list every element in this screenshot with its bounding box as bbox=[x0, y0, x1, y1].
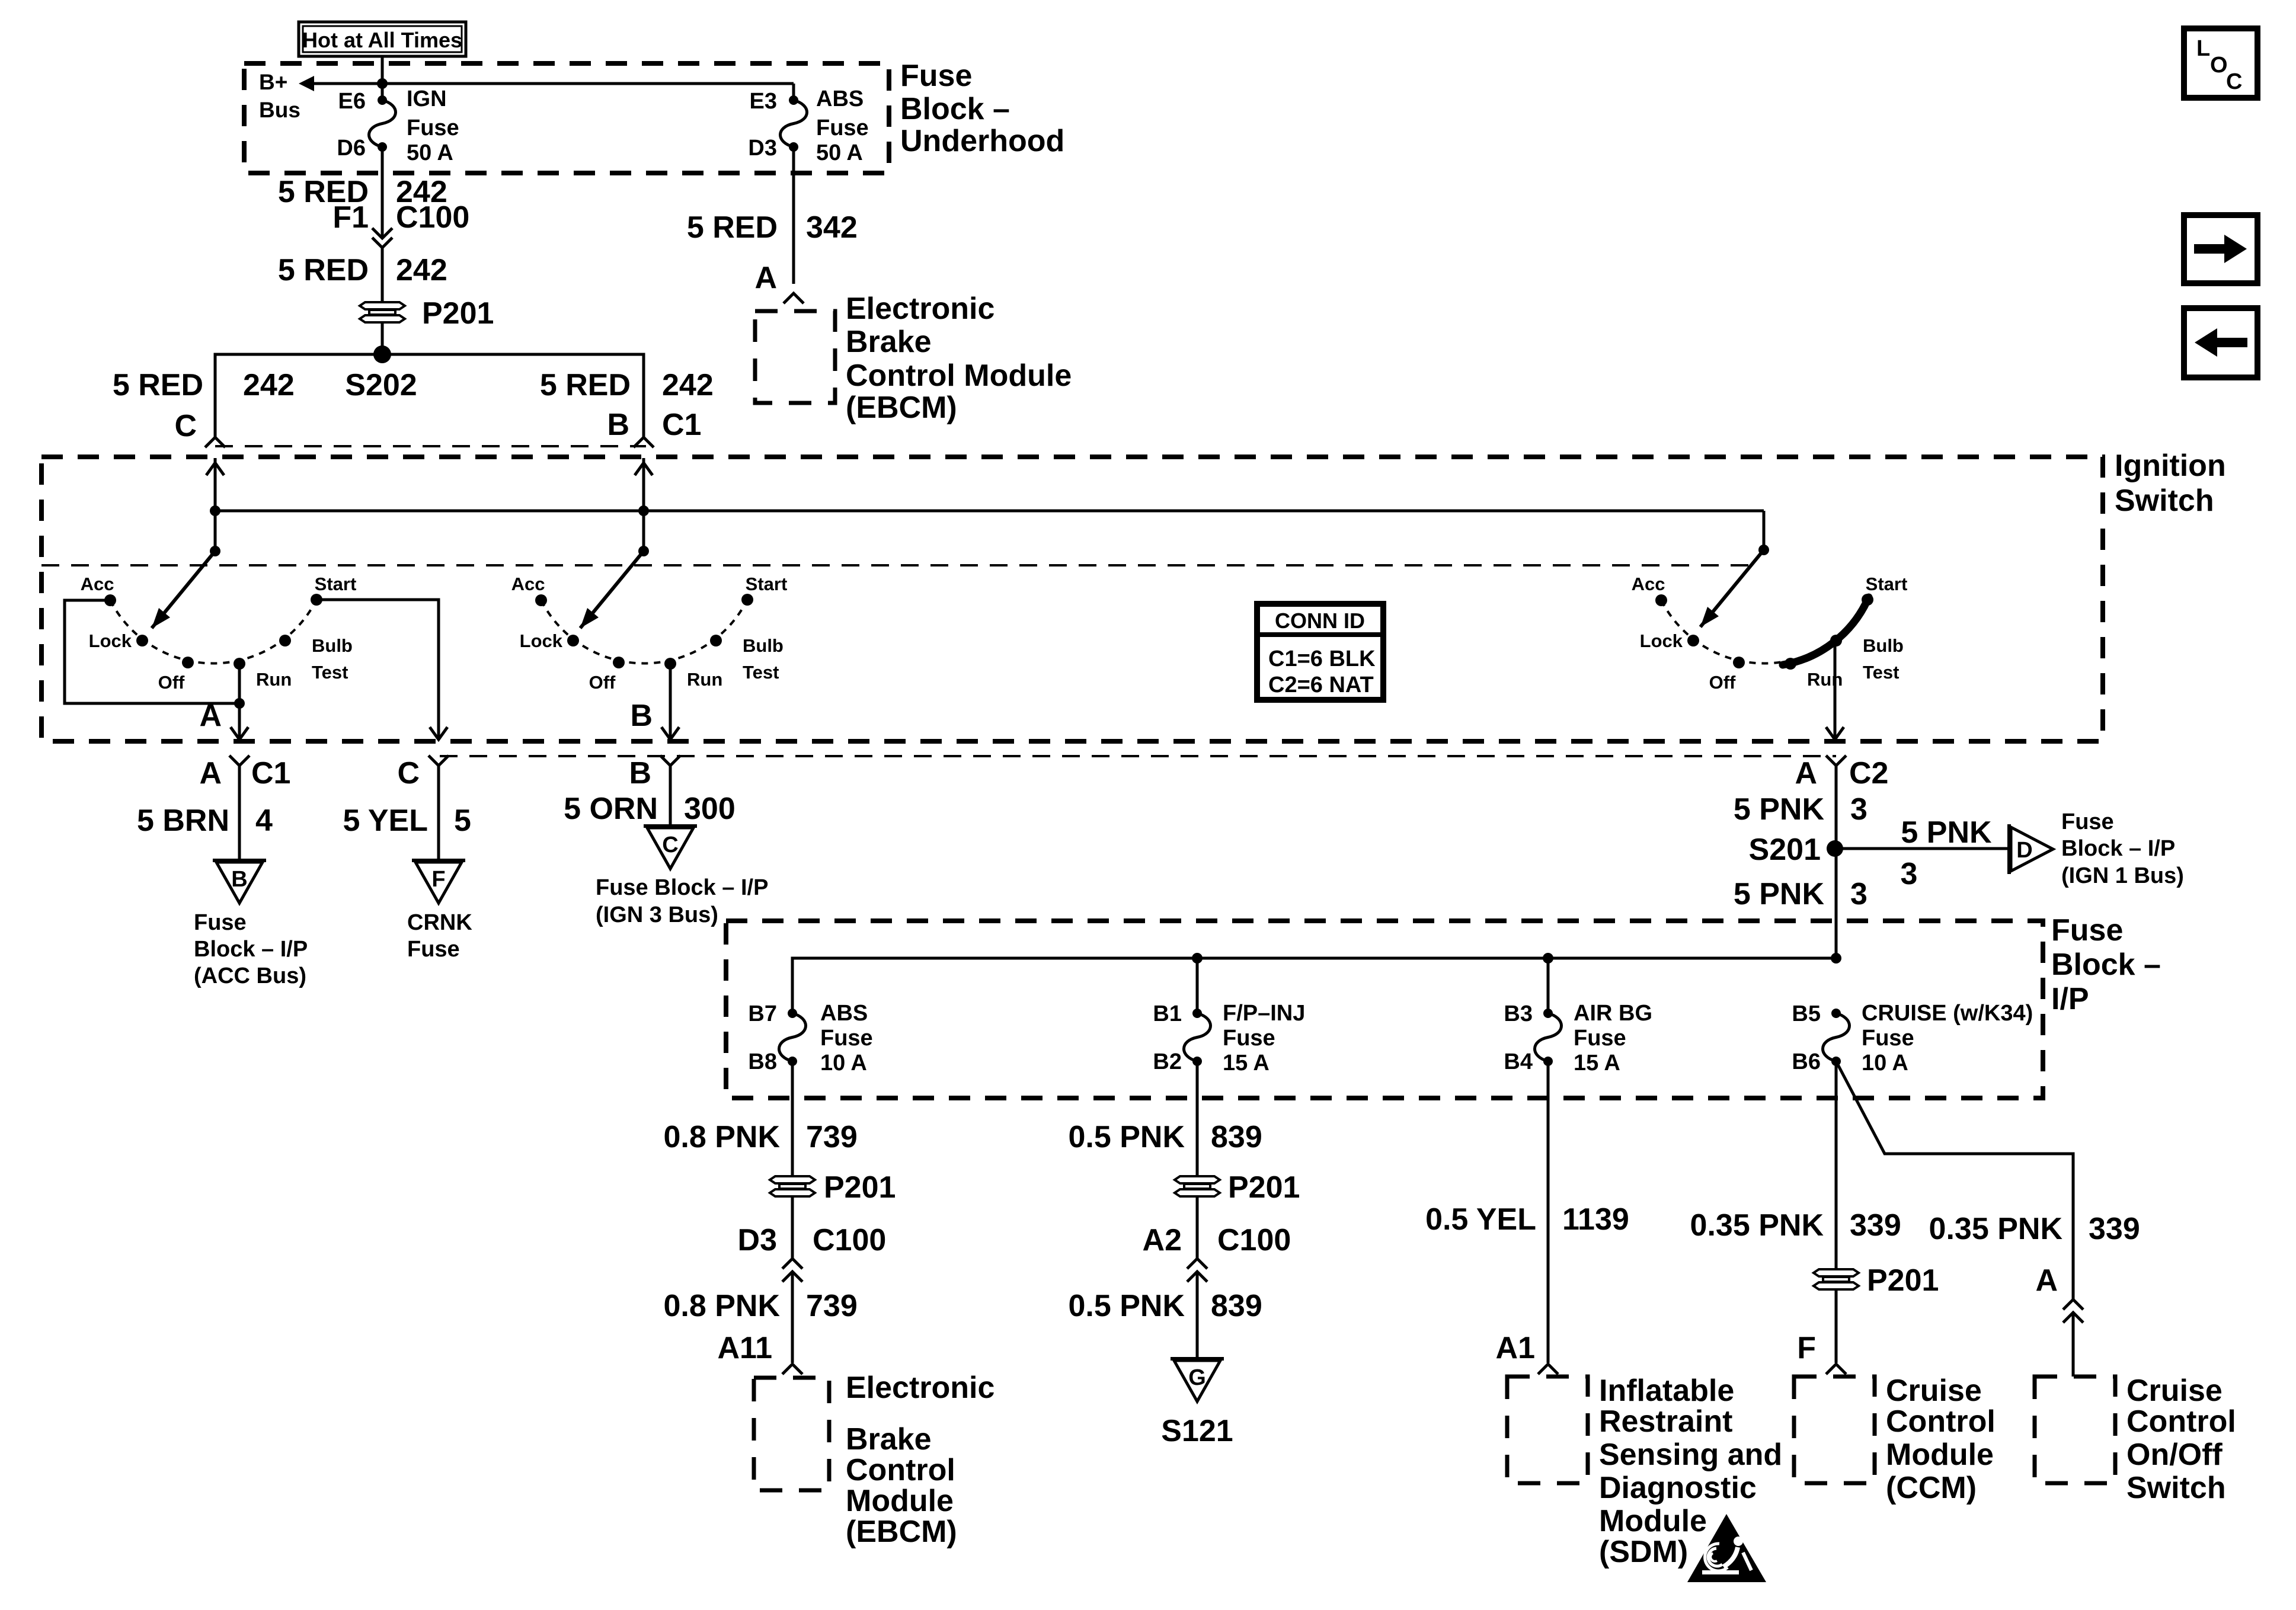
pin labels B5 B6 bbox=[1792, 1001, 1821, 1074]
value label IGN Fuse 50 A bbox=[407, 87, 459, 165]
svg-text:Fuse: Fuse bbox=[900, 59, 972, 93]
wire 339 from B6 bbox=[1835, 1061, 1838, 1269]
svg-text:Control: Control bbox=[846, 1453, 955, 1487]
svg-text:CRUISE (w/K34): CRUISE (w/K34) bbox=[1862, 1001, 2033, 1026]
contact labels bank1 bbox=[81, 574, 357, 693]
svg-text:Run: Run bbox=[687, 669, 722, 690]
svg-text:Inflatable: Inflatable bbox=[1599, 1374, 1734, 1408]
svg-text:ABS: ABS bbox=[816, 87, 864, 111]
module name Fuse Block - Underhood bbox=[900, 59, 1064, 158]
svg-text:Acc: Acc bbox=[511, 574, 545, 594]
svg-text:Fuse: Fuse bbox=[407, 116, 459, 140]
wire 339 branch from B6 to on-off switch bbox=[1836, 1061, 2073, 1299]
wire label 242 right branch bbox=[662, 368, 714, 402]
svg-text:CONN ID: CONN ID bbox=[1275, 609, 1365, 633]
svg-text:Block – I/P: Block – I/P bbox=[2061, 836, 2175, 861]
svg-text:339: 339 bbox=[2089, 1212, 2140, 1246]
svg-text:739: 739 bbox=[806, 1289, 858, 1323]
pin label A on-off bbox=[2035, 1263, 2058, 1298]
B+ bus arrow bbox=[299, 76, 382, 91]
fuse ABS 10A bbox=[779, 1009, 806, 1066]
svg-text:ABS: ABS bbox=[820, 1001, 868, 1026]
switch contact arc bank3 bbox=[1655, 594, 1873, 670]
pin label A2 C100 bbox=[1143, 1223, 1291, 1257]
fuse ABS 50A bbox=[781, 95, 807, 152]
module name Electronic Brake Control Module EBCM bbox=[846, 292, 1072, 425]
note Fuse Block - I/P ACC Bus bbox=[194, 910, 308, 988]
svg-text:Start: Start bbox=[315, 574, 357, 594]
svg-text:Electronic: Electronic bbox=[846, 292, 994, 326]
wire label 242 left branch bbox=[243, 368, 295, 402]
splice P201 on 839 bbox=[1175, 1170, 1300, 1205]
wiper arrow bank2 bbox=[580, 551, 644, 628]
splice S201 node bbox=[1749, 833, 1843, 867]
svg-text:C: C bbox=[397, 756, 420, 790]
pin label F1 and connector label C100 bbox=[332, 200, 469, 235]
svg-text:L: L bbox=[2196, 36, 2210, 61]
connector chevron at EBCM A bbox=[784, 293, 804, 303]
switch inner dashed line bbox=[41, 564, 1748, 566]
conn id text bbox=[1268, 609, 1376, 697]
svg-text:342: 342 bbox=[806, 210, 858, 245]
fuse FP-INJ 15A bbox=[1184, 958, 1211, 1066]
label box Hot at All Times bbox=[299, 22, 466, 56]
next page arrow box bbox=[2184, 215, 2257, 283]
svg-text:B: B bbox=[629, 756, 651, 790]
node bus junction CRUISE bbox=[1831, 953, 1841, 964]
value label FP-INJ Fuse 15 A bbox=[1223, 1001, 1305, 1076]
svg-text:0.8 PNK: 0.8 PNK bbox=[663, 1289, 780, 1323]
label B+ Bus bbox=[259, 70, 300, 122]
module box EBCM bottom bbox=[754, 1378, 829, 1490]
svg-text:Electronic: Electronic bbox=[846, 1371, 994, 1405]
wire from Hot box to node E6 bbox=[381, 56, 384, 100]
note Fuse Block - I/P IGN 3 Bus bbox=[596, 875, 768, 927]
fuse block IP box bbox=[726, 921, 2043, 1098]
wire label 5 RED 342 bbox=[687, 210, 858, 245]
module name Cruise Control Module CCM bbox=[1886, 1374, 1996, 1505]
airbag warning icon bbox=[1687, 1514, 1766, 1582]
module box EBCM top bbox=[755, 311, 835, 403]
svg-text:242: 242 bbox=[662, 368, 714, 402]
svg-text:Off: Off bbox=[158, 672, 185, 693]
svg-text:5 YEL: 5 YEL bbox=[343, 804, 428, 838]
svg-text:P201: P201 bbox=[422, 296, 494, 331]
svg-text:Diagnostic: Diagnostic bbox=[1599, 1471, 1757, 1505]
node bus junction AIR BG bbox=[1543, 953, 1553, 964]
svg-text:Switch: Switch bbox=[2126, 1471, 2226, 1505]
svg-text:Sensing and: Sensing and bbox=[1599, 1438, 1782, 1472]
svg-text:Bulb: Bulb bbox=[312, 635, 353, 656]
wire label 0.35 PNK 339 right bbox=[1929, 1212, 2140, 1246]
wire to ground G bbox=[1196, 1272, 1199, 1359]
node wiper pivot bank3 bbox=[1758, 545, 1769, 555]
svg-text:5 PNK: 5 PNK bbox=[1734, 792, 1825, 827]
note CRNK Fuse bbox=[407, 910, 472, 962]
svg-text:IGN: IGN bbox=[407, 87, 447, 111]
value label CRUISE Fuse 10 A bbox=[1862, 1001, 2033, 1076]
splice P201 on 339 bbox=[1814, 1263, 1939, 1298]
svg-text:Cruise: Cruise bbox=[2126, 1374, 2223, 1408]
connector label C1 bbox=[662, 408, 701, 442]
label C below switch bbox=[397, 756, 420, 790]
svg-text:0.5 PNK: 0.5 PNK bbox=[1068, 1289, 1185, 1323]
svg-text:A: A bbox=[199, 756, 222, 790]
wire P201 to CCM F bbox=[1835, 1289, 1838, 1363]
wire label 0.5 PNK 839 upper bbox=[1068, 1120, 1262, 1154]
wire to EBCM A11 bbox=[791, 1272, 794, 1363]
wire Acc loop bank1 bbox=[65, 600, 239, 703]
fuse IGN 50A bbox=[369, 95, 396, 152]
svg-text:Lock: Lock bbox=[89, 630, 132, 651]
svg-text:3: 3 bbox=[1901, 857, 1918, 891]
svg-text:C: C bbox=[2226, 69, 2242, 94]
connector C100 inline F1 bbox=[372, 228, 392, 248]
pin label D6 bbox=[337, 136, 366, 161]
svg-text:B: B bbox=[231, 867, 247, 892]
pin label A bank1 bbox=[199, 699, 222, 733]
pin label D3 bbox=[748, 136, 777, 161]
svg-text:5 BRN: 5 BRN bbox=[137, 804, 229, 838]
svg-text:15 A: 15 A bbox=[1223, 1051, 1269, 1076]
svg-text:Fuse: Fuse bbox=[407, 937, 460, 962]
wiper arrow bank3 bbox=[1700, 550, 1764, 627]
triangle connector C bbox=[644, 826, 697, 869]
wire S201 to D triangle bbox=[1835, 847, 2009, 850]
wiper arrow bank1 bbox=[152, 551, 215, 628]
svg-text:Start: Start bbox=[746, 574, 788, 594]
svg-text:242: 242 bbox=[396, 253, 447, 287]
node wiper pivot bank2 bbox=[638, 546, 649, 556]
svg-text:(EBCM): (EBCM) bbox=[846, 391, 957, 425]
connector face thin dashed line top bbox=[215, 445, 646, 447]
wire B+ bus to ABS fuse E3 bbox=[382, 84, 794, 100]
svg-text:Hot at All Times: Hot at All Times bbox=[302, 28, 462, 52]
node junction at B+ bus bbox=[377, 78, 388, 89]
wire P201 to C100 A2 bbox=[1196, 1196, 1199, 1259]
svg-text:(IGN 1 Bus): (IGN 1 Bus) bbox=[2061, 863, 2184, 888]
svg-text:3: 3 bbox=[1850, 877, 1868, 911]
svg-text:C1: C1 bbox=[251, 756, 290, 790]
pin label F bbox=[1797, 1331, 1816, 1365]
pin label D3 C100 bbox=[738, 1223, 887, 1257]
label B below switch bbox=[629, 756, 651, 790]
value label AIR BG Fuse 15 A bbox=[1574, 1001, 1652, 1076]
svg-text:0.5 PNK: 0.5 PNK bbox=[1068, 1120, 1185, 1154]
svg-text:B4: B4 bbox=[1504, 1049, 1533, 1074]
svg-text:B8: B8 bbox=[748, 1049, 777, 1074]
svg-text:Fuse: Fuse bbox=[1574, 1026, 1626, 1051]
module name Cruise Control On Off Switch bbox=[2126, 1374, 2236, 1505]
svg-text:Control Module: Control Module bbox=[846, 359, 1072, 393]
svg-text:Acc: Acc bbox=[1632, 574, 1665, 594]
svg-text:E3: E3 bbox=[750, 89, 777, 114]
ground triangle G bbox=[1171, 1359, 1224, 1401]
wire S202 bus bar bbox=[215, 354, 644, 438]
triangle connector B bbox=[213, 860, 266, 903]
svg-text:5 RED: 5 RED bbox=[113, 368, 203, 402]
pin labels B1 B2 bbox=[1153, 1001, 1182, 1074]
node wiper pivot bank1 bbox=[210, 546, 220, 556]
svg-text:D: D bbox=[2016, 838, 2032, 863]
svg-text:C2: C2 bbox=[1849, 756, 1888, 790]
switch internal bus bbox=[215, 511, 1764, 550]
svg-text:(ACC Bus): (ACC Bus) bbox=[194, 964, 306, 988]
svg-text:Ignition: Ignition bbox=[2115, 449, 2226, 483]
svg-text:A: A bbox=[1795, 756, 1817, 790]
svg-text:Brake: Brake bbox=[846, 325, 932, 359]
splice label S121 bbox=[1161, 1414, 1233, 1448]
svg-text:5 RED: 5 RED bbox=[540, 368, 631, 402]
splice P201 on 739 bbox=[770, 1170, 896, 1205]
wire label 5 RED 242 row2 bbox=[278, 253, 447, 287]
wire label 5 BRN 4 bbox=[137, 804, 273, 838]
svg-text:B3: B3 bbox=[1504, 1001, 1533, 1026]
connector C100 inline A2 bbox=[1187, 1259, 1207, 1282]
pin label B bank2 bbox=[630, 699, 653, 733]
value label ABS Fuse 10 A bbox=[820, 1001, 873, 1076]
svg-text:F1: F1 bbox=[332, 200, 369, 235]
pin labels B7 B8 bbox=[748, 1001, 777, 1074]
svg-text:Fuse: Fuse bbox=[820, 1026, 873, 1051]
svg-text:Test: Test bbox=[743, 662, 779, 683]
labels A C1 below switch bbox=[199, 756, 290, 790]
wire Run output bank1 with arrow bbox=[231, 664, 248, 740]
svg-text:C2=6 NAT: C2=6 NAT bbox=[1268, 673, 1374, 697]
wire label 5 PNK over branch bbox=[1901, 815, 1992, 850]
value label ABS Fuse 50 A bbox=[816, 87, 869, 165]
svg-text:339: 339 bbox=[1850, 1208, 1901, 1243]
svg-text:Bulb: Bulb bbox=[1863, 635, 1904, 656]
svg-text:739: 739 bbox=[806, 1120, 858, 1154]
node bus junction FP-INJ bbox=[1192, 953, 1203, 964]
connector chevron C bbox=[205, 437, 225, 447]
svg-text:839: 839 bbox=[1211, 1289, 1262, 1323]
svg-text:C1: C1 bbox=[662, 408, 701, 442]
svg-text:D6: D6 bbox=[337, 136, 366, 161]
pin label A at EBCM bbox=[754, 261, 777, 295]
wire Bulb Test output bank3 with arrow bbox=[1826, 646, 1844, 740]
wiper thick arc bank3 Run to Start bbox=[1783, 597, 1869, 665]
svg-text:B5: B5 bbox=[1792, 1001, 1821, 1026]
svg-text:10 A: 10 A bbox=[1862, 1051, 1908, 1076]
svg-text:5 RED: 5 RED bbox=[687, 210, 778, 245]
switch contact arc bank1 bbox=[104, 594, 322, 670]
svg-text:On/Off: On/Off bbox=[2126, 1438, 2223, 1472]
svg-text:Brake: Brake bbox=[846, 1422, 932, 1457]
pin label C at ignition switch bbox=[174, 409, 197, 443]
svg-text:A11: A11 bbox=[717, 1331, 772, 1365]
svg-text:Off: Off bbox=[1709, 672, 1736, 693]
svg-text:S201: S201 bbox=[1749, 833, 1821, 867]
wire 739 from B8 bbox=[791, 1061, 794, 1176]
loc reference box bbox=[2184, 28, 2257, 98]
connector face thin dashed line bottom bbox=[440, 755, 1836, 757]
connector chevron B bbox=[660, 756, 680, 826]
svg-text:Control: Control bbox=[1886, 1404, 1996, 1439]
svg-text:Fuse: Fuse bbox=[1223, 1026, 1275, 1051]
svg-text:F: F bbox=[1797, 1331, 1816, 1365]
note Fuse Block - I/P IGN 1 Bus bbox=[2061, 809, 2184, 888]
conn id box bbox=[1257, 604, 1383, 700]
svg-text:1139: 1139 bbox=[1562, 1202, 1629, 1237]
svg-text:Switch: Switch bbox=[2115, 484, 2214, 518]
svg-text:Off: Off bbox=[589, 672, 616, 693]
connector C100 inline D3 bbox=[782, 1259, 802, 1282]
fuse block IP internal bus bbox=[792, 958, 1836, 1013]
wire 342 from D3 to EBCM bbox=[792, 147, 795, 284]
svg-text:Start: Start bbox=[1866, 574, 1908, 594]
module box CCM bbox=[1794, 1377, 1875, 1483]
wire label 3 under branch bbox=[1901, 857, 1918, 891]
node Run stem junction bank1 bbox=[234, 698, 245, 709]
wire label 0.8 PNK 739 lower bbox=[663, 1289, 857, 1323]
svg-text:(IGN 3 Bus): (IGN 3 Bus) bbox=[596, 902, 718, 927]
svg-text:5 PNK: 5 PNK bbox=[1901, 815, 1992, 850]
svg-text:Bus: Bus bbox=[259, 98, 300, 122]
splice P201 top bbox=[360, 296, 494, 331]
svg-text:5 PNK: 5 PNK bbox=[1734, 877, 1825, 911]
svg-text:P201: P201 bbox=[1867, 1263, 1939, 1298]
prev page arrow box bbox=[2184, 308, 2257, 377]
wire label 5 ORN 300 bbox=[564, 792, 736, 826]
contact labels bank3 bbox=[1632, 574, 1908, 693]
svg-text:A: A bbox=[2035, 1263, 2058, 1298]
svg-text:50 A: 50 A bbox=[407, 140, 453, 165]
svg-text:Bulb: Bulb bbox=[743, 635, 784, 656]
svg-text:Control: Control bbox=[2126, 1404, 2236, 1439]
wire label 0.5 PNK 839 lower bbox=[1068, 1289, 1262, 1323]
module name Ignition Switch bbox=[2115, 449, 2226, 518]
triangle connector D bbox=[2009, 824, 2053, 874]
wire label 5 RED left of S202 bbox=[113, 368, 203, 402]
svg-text:Lock: Lock bbox=[520, 630, 563, 651]
wire C100 to splice P201 bbox=[381, 248, 384, 302]
svg-text:Acc: Acc bbox=[81, 574, 114, 594]
svg-text:S121: S121 bbox=[1161, 1414, 1233, 1448]
svg-text:0.35 PNK: 0.35 PNK bbox=[1929, 1212, 2063, 1246]
svg-text:Test: Test bbox=[312, 662, 348, 683]
svg-text:B: B bbox=[630, 699, 653, 733]
svg-text:Block –: Block – bbox=[2051, 948, 2161, 982]
svg-text:E6: E6 bbox=[338, 89, 366, 114]
wire label 5 RED right branch bbox=[540, 368, 631, 402]
wire 1139 from B4 bbox=[1547, 1061, 1550, 1363]
svg-text:O: O bbox=[2210, 53, 2228, 78]
svg-text:Run: Run bbox=[1807, 669, 1843, 690]
svg-text:Fuse: Fuse bbox=[2061, 809, 2114, 834]
svg-text:Lock: Lock bbox=[1640, 630, 1683, 651]
svg-text:15 A: 15 A bbox=[1574, 1051, 1620, 1076]
wire to on-off box bbox=[2072, 1313, 2075, 1377]
svg-text:5 ORN: 5 ORN bbox=[564, 792, 658, 826]
connector chevron B bbox=[634, 437, 654, 447]
svg-text:B7: B7 bbox=[748, 1001, 777, 1026]
svg-text:Module: Module bbox=[1886, 1438, 1994, 1472]
module box Cruise Control On/Off Switch bbox=[2035, 1377, 2115, 1483]
node bus junction left bbox=[210, 505, 220, 516]
wire P201 to C100 bbox=[791, 1196, 794, 1259]
svg-text:C: C bbox=[662, 833, 678, 857]
svg-text:S202: S202 bbox=[345, 368, 417, 402]
svg-text:10 A: 10 A bbox=[820, 1051, 867, 1076]
fuse CRUISE 10A bbox=[1823, 1009, 1850, 1066]
wire P201 to splice S202 bbox=[381, 322, 384, 354]
svg-text:F: F bbox=[431, 867, 445, 892]
svg-text:242: 242 bbox=[243, 368, 295, 402]
wire Start output bank1 with arrow bbox=[316, 600, 447, 740]
wire label 0.8 PNK 739 upper bbox=[663, 1120, 857, 1154]
svg-text:(EBCM): (EBCM) bbox=[846, 1515, 957, 1549]
svg-text:Fuse: Fuse bbox=[1862, 1026, 1914, 1051]
svg-text:P201: P201 bbox=[1228, 1170, 1300, 1205]
svg-text:50 A: 50 A bbox=[816, 140, 863, 165]
svg-text:5 RED: 5 RED bbox=[278, 253, 369, 287]
fuse AIR BG 15A bbox=[1535, 958, 1562, 1066]
svg-text:4: 4 bbox=[255, 804, 273, 838]
svg-text:Module: Module bbox=[1599, 1504, 1707, 1538]
connector chevron C bbox=[428, 756, 449, 860]
pin label B at ignition switch bbox=[607, 408, 629, 442]
connector chevron at SDM A1 bbox=[1538, 1364, 1558, 1374]
contact labels bank2 bbox=[511, 574, 788, 693]
svg-text:0.35 PNK: 0.35 PNK bbox=[1690, 1208, 1824, 1243]
svg-text:C100: C100 bbox=[813, 1223, 886, 1257]
svg-text:5: 5 bbox=[454, 804, 471, 838]
connector inline A bbox=[2063, 1299, 2083, 1323]
wire label 5 RED 242 row1 bbox=[278, 175, 447, 209]
svg-text:Underhood: Underhood bbox=[900, 124, 1064, 158]
svg-text:D3: D3 bbox=[738, 1223, 777, 1257]
svg-text:0.8 PNK: 0.8 PNK bbox=[663, 1120, 780, 1154]
svg-text:A: A bbox=[754, 261, 777, 295]
svg-text:3: 3 bbox=[1850, 792, 1868, 827]
svg-text:AIR BG: AIR BG bbox=[1574, 1001, 1652, 1026]
pin label E6 bbox=[338, 89, 366, 114]
wire label 5 PNK 3 upper bbox=[1734, 792, 1868, 827]
svg-text:C100: C100 bbox=[1217, 1223, 1291, 1257]
module box SDM bbox=[1507, 1377, 1588, 1483]
wire Run output bank2 with arrow bbox=[661, 664, 679, 740]
svg-text:C100: C100 bbox=[396, 200, 469, 235]
pin label E3 bbox=[750, 89, 777, 114]
connector chevron A C1 bbox=[229, 756, 250, 860]
svg-text:Run: Run bbox=[256, 669, 292, 690]
svg-text:Cruise: Cruise bbox=[1886, 1374, 1982, 1408]
fuse block underhood box bbox=[244, 63, 889, 173]
connector chevron at CCM F bbox=[1826, 1364, 1846, 1374]
pin labels B3 B4 bbox=[1504, 1001, 1533, 1074]
svg-text:F/P–INJ: F/P–INJ bbox=[1223, 1001, 1305, 1026]
wire label 0.5 YEL 1139 bbox=[1425, 1202, 1629, 1237]
wire label 0.35 PNK 339 bbox=[1690, 1208, 1901, 1243]
wire into switch from C with up arrow bbox=[206, 458, 224, 551]
labels A C2 below switch bbox=[1795, 756, 1888, 790]
node bus junction mid bbox=[638, 505, 649, 516]
svg-text:300: 300 bbox=[684, 792, 736, 826]
svg-text:A2: A2 bbox=[1143, 1223, 1182, 1257]
svg-text:C: C bbox=[174, 409, 197, 443]
svg-text:A: A bbox=[199, 699, 222, 733]
connector chevron A C2 bbox=[1826, 756, 1846, 960]
wire label 5 YEL 5 bbox=[343, 804, 471, 838]
svg-text:I/P: I/P bbox=[2051, 982, 2089, 1016]
svg-text:Fuse: Fuse bbox=[816, 116, 869, 140]
switch contact arc bank2 bbox=[535, 594, 753, 670]
svg-text:839: 839 bbox=[1211, 1120, 1262, 1154]
ignition switch box bbox=[41, 457, 2103, 741]
svg-text:B2: B2 bbox=[1153, 1049, 1182, 1074]
